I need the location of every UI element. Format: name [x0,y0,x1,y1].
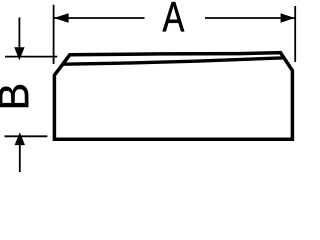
extension line bottom (dimension B) [5,135,48,137]
arrowhead B down [14,47,24,60]
cap rim seam line [64,58,285,64]
arrowhead A right [281,13,295,23]
arrowhead B up [15,132,25,145]
extension line left (dimension A) [53,5,55,64]
dimension line A left segment [54,17,145,19]
extension line right (dimension A) [294,6,296,62]
label A [163,2,185,31]
extension line top (dimension B) [5,56,57,58]
label B [0,85,28,107]
dimension line A right segment [205,17,295,19]
dimension line B lower segment [19,145,21,173]
dimension line B upper segment [18,17,20,48]
arrowhead A left [54,13,69,23]
cap body outline [54,53,292,140]
